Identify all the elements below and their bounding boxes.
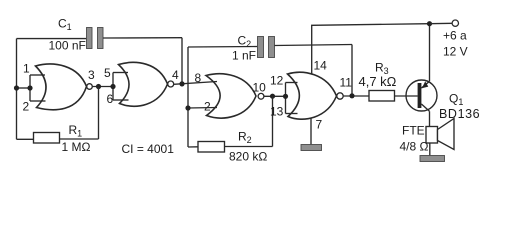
node junction with C2 riser [349, 93, 354, 98]
wire R2 right to riser [225, 146, 273, 148]
svg-text:3: 3 [88, 68, 95, 82]
wire input bar tying pins 5 and 6 [113, 73, 129, 101]
wire from U1b output across to U1c pin 8 input [174, 82, 217, 85]
svg-text:14: 14 [314, 59, 328, 73]
svg-text:4: 4 [172, 68, 179, 82]
wire speaker to ground [429, 143, 431, 156]
svg-text:CI = 4001: CI = 4001 [122, 142, 175, 156]
svg-text:12: 12 [270, 74, 284, 88]
wire R3 to Q1 base [395, 95, 418, 97]
wire pin 7 down to ground [310, 119, 312, 145]
svg-text:2: 2 [204, 100, 211, 114]
wire riser from C1 down to node at U1b output [181, 38, 183, 84]
svg-text:10: 10 [253, 81, 267, 95]
node junction on left rail [14, 85, 19, 90]
wire rail for C2/R2 feedback node [187, 47, 189, 147]
resistor R3 [369, 91, 395, 102]
svg-text:1 MΩ: 1 MΩ [62, 140, 91, 154]
svg-text:12 V: 12 V [443, 45, 468, 59]
wire input bar tying pins 1 and 2 [17, 75, 46, 101]
svg-text:4,7 kΩ: 4,7 kΩ [359, 74, 397, 89]
svg-text:BD136: BD136 [439, 107, 480, 121]
svg-text:7: 7 [316, 118, 323, 132]
emitter with arrow toward base [421, 81, 429, 88]
wire left rail (C1/R1 feedback loop) [16, 39, 18, 140]
wire rail bottom corner to R1 [17, 138, 34, 140]
NOR gate U1b (CI 4001, pins 5,6 -> 4) [119, 62, 174, 106]
wire supply to terminal [430, 22, 453, 24]
terminal +6 to 12 V [452, 20, 458, 26]
wire pin 2 input from rail to gate [188, 107, 217, 110]
ground (speaker) [420, 156, 445, 162]
wire riser from node down to R2 right side [272, 96, 274, 146]
wire U1d output to R3 [343, 95, 369, 97]
svg-text:2: 2 [23, 100, 30, 114]
node junction on U1b input bar [110, 84, 115, 89]
node junction rail to pin2/R2 [185, 105, 190, 110]
wire riser down to node at U1d output [351, 45, 353, 97]
svg-text:FTE: FTE [402, 124, 425, 138]
resistor R2 [198, 142, 225, 153]
node junction on U1a input bar [27, 85, 32, 90]
NOR gate U1a (CI 4001, pins 1,2 -> 3) [36, 64, 93, 110]
NOR gate U1c (CI 4001, pins 8,2 -> 10) [206, 74, 264, 118]
svg-text:R2: R2 [238, 130, 252, 146]
svg-text:1: 1 [23, 62, 30, 76]
resistor R1 [34, 133, 60, 144]
wire top run from rail to C1 left plate [17, 38, 87, 40]
wire rail bottom to R2 left [188, 146, 198, 148]
node junction emitter/supply [427, 21, 432, 26]
svg-text:13: 13 [270, 105, 284, 119]
svg-text:C2: C2 [238, 34, 252, 50]
wire from U1a output (pin 3) to U1b input bar [92, 86, 113, 88]
wire collector down to speaker [429, 111, 431, 126]
svg-text:820 kΩ: 820 kΩ [229, 150, 267, 164]
node junction to R1 riser [96, 84, 101, 89]
transistor Q1 BD136 (PNP) [406, 80, 437, 111]
wire R1 to riser up to node at pin 3 [60, 138, 99, 140]
svg-text:5: 5 [104, 66, 111, 80]
svg-text:+6 a: +6 a [443, 29, 467, 43]
node junction on U1d input bar [283, 94, 288, 99]
wire from C1 right plate toward feedback riser [103, 37, 182, 39]
wire pin 14 riser up to supply rail [312, 24, 430, 74]
NOR gate U1d (CI 4001, pins 12,13 -> 11) [288, 72, 344, 119]
wire U1c output to U1d input bar [264, 95, 286, 97]
wire riser from node down to R1 [98, 87, 100, 140]
svg-text:8: 8 [195, 71, 202, 85]
collector [421, 104, 429, 111]
wire emitter up to supply rail [429, 24, 431, 82]
svg-text:11: 11 [340, 76, 353, 90]
svg-text:4/8 Ω: 4/8 Ω [400, 140, 429, 154]
capacitor C1 [87, 28, 104, 49]
svg-text:Q1: Q1 [449, 92, 463, 108]
ground (pin 7) [301, 145, 322, 151]
wire from C2 right plate to riser at U1d output [275, 45, 353, 46]
svg-text:100 nF: 100 nF [49, 39, 86, 53]
node junction to R2 riser [270, 94, 275, 99]
node junction with C1 riser [179, 81, 184, 86]
svg-text:R1: R1 [69, 123, 83, 139]
svg-text:6: 6 [107, 92, 114, 106]
speaker FTE [426, 119, 454, 150]
capacitor C2 [258, 37, 275, 58]
wire from rail corner to C2 left plate [188, 46, 258, 49]
wire input bar tying pins 12 and 13 [286, 83, 298, 114]
svg-text:C1: C1 [58, 17, 72, 33]
svg-text:1 nF: 1 nF [232, 49, 256, 63]
